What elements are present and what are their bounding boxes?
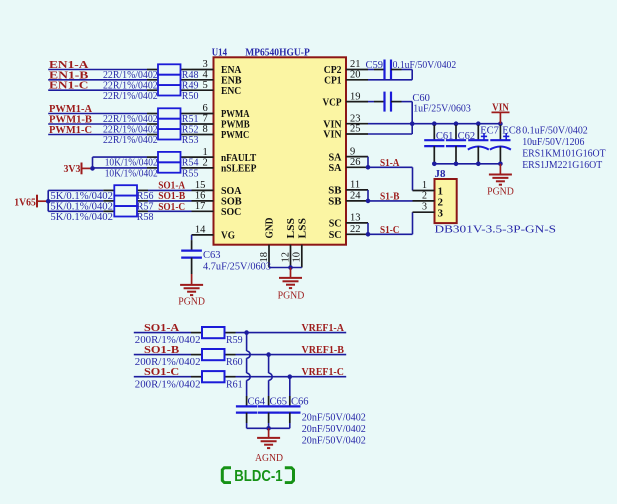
svg-text:2: 2 [203, 158, 208, 169]
wire 1V65 to R58 [48, 210, 103, 212]
svg-text:10uF/50V/1206: 10uF/50V/1206 [522, 137, 584, 148]
U14 pin 12 LSS (bottom stub + number + name) [280, 218, 297, 268]
svg-text:U14: U14 [212, 47, 228, 59]
svg-text:R58: R58 [137, 212, 154, 223]
svg-text:13: 13 [350, 213, 361, 224]
net label SO1-C (lower section) [144, 366, 179, 378]
junction dot bottom rail C62 [454, 162, 459, 167]
cap bank part number ERS1KM101G16OT [522, 148, 606, 159]
junction dot VREF1-A branch [244, 330, 249, 335]
svg-text:VREF1-A: VREF1-A [302, 322, 344, 334]
svg-text:19: 19 [350, 91, 361, 102]
U14 pin 6 PWMA (left stub + number + name) [192, 103, 250, 120]
svg-text:C59: C59 [366, 60, 384, 71]
wire joining GND/LSS/LSS bottom pins [269, 267, 302, 269]
wire SO1-A to R59 [134, 332, 191, 334]
resistor R48 22R/1%/0402 [103, 64, 198, 81]
resistor R50 22R/1%/0402 [103, 85, 198, 102]
svg-text:PGND: PGND [487, 186, 514, 197]
ground PGND under cap bank [487, 164, 514, 198]
svg-text:26: 26 [350, 157, 361, 168]
power port 1V65 [14, 195, 48, 209]
ground PGND under C63 [178, 274, 205, 308]
svg-text:PGND: PGND [278, 290, 305, 301]
svg-text:nSLEEP: nSLEEP [221, 163, 257, 175]
svg-text:SC: SC [329, 218, 342, 230]
svg-text:VREF1-C: VREF1-C [302, 366, 344, 378]
svg-text:MP6540HGU-P: MP6540HGU-P [245, 47, 310, 59]
svg-text:SB: SB [328, 196, 342, 208]
U14 pin 26 SA (right stub + number + name) [329, 157, 369, 174]
svg-text:17: 17 [195, 201, 206, 212]
U14 pin 15 SOA (left stub + number + name) [192, 180, 242, 197]
net label S1-C [380, 224, 399, 236]
svg-text:9: 9 [350, 146, 355, 157]
junction dot at 3V3 connection [90, 166, 95, 171]
svg-text:ERS1JM221G16OT: ERS1JM221G16OT [522, 160, 603, 171]
wire C64 branch vertical with hops [247, 333, 251, 396]
svg-text:R59: R59 [226, 335, 243, 346]
polarized capacitor EC7 [468, 125, 499, 162]
junction dot SB [366, 199, 371, 204]
svg-text:2: 2 [422, 190, 427, 201]
wire cap bank bottom rail [434, 163, 500, 165]
wire VG pin 14 corner down to C63 [191, 235, 193, 240]
wire pin21 to C59 [368, 69, 374, 71]
svg-text:1V65: 1V65 [14, 197, 36, 209]
svg-text:GND: GND [264, 217, 276, 238]
U14 pin 9 SA (right stub + number + name) [329, 146, 369, 163]
resistor R53 22R/1%/0402 [103, 129, 198, 146]
wire EN1-B to R49 [48, 79, 147, 81]
svg-text:SC: SC [329, 229, 342, 241]
junction dot SA [366, 165, 371, 170]
svg-text:3: 3 [438, 207, 444, 219]
wire 1V65 vertical bus [47, 190, 49, 211]
junction dot VIN rail at EC8/VIN [498, 121, 503, 126]
resistor R60 200R/1%/0402 [135, 349, 243, 368]
polarized capacitor EC8 [490, 125, 521, 162]
resistor R58 5K/0.1%/0402 [50, 206, 153, 223]
svg-text:1uF/25V/0603: 1uF/25V/0603 [413, 104, 471, 115]
svg-text:ERS1KM101G16OT: ERS1KM101G16OT [522, 148, 606, 159]
U14 pin 8 PWMC (left stub + number + name) [192, 124, 250, 141]
U14 pin 3 ENA (left stub + number + name) [192, 59, 242, 76]
U14 pin 23 VIN (right stub + number + name) [323, 113, 368, 130]
svg-text:CP1: CP1 [324, 75, 341, 87]
wire R61 to VREF1-C [236, 376, 347, 378]
connector J8 body DB301V-3.5-3P-GN-S [435, 179, 457, 223]
capacitor C62 [446, 125, 475, 162]
svg-text:DB301V-3.5-3P-GN-S: DB301V-3.5-3P-GN-S [435, 224, 557, 235]
svg-text:LSS: LSS [285, 218, 297, 239]
svg-text:J8: J8 [435, 168, 447, 180]
junction dot SC [366, 232, 371, 237]
wire 3V3 to R55 [93, 167, 148, 169]
J8 pin 1 [413, 180, 444, 198]
wire R59 to VREF1-A [236, 332, 347, 334]
U14 pin 13 SC (right stub + number + name) [329, 213, 368, 230]
C64-C66 value text 20nF/50V/0402 line1 [302, 412, 366, 423]
svg-text:EC8: EC8 [502, 125, 521, 136]
svg-text:R60: R60 [226, 357, 243, 368]
svg-text:22: 22 [350, 224, 361, 235]
capacitor C65 20nF/50V/0402 [258, 396, 287, 423]
svg-text:C63: C63 [203, 250, 221, 261]
svg-text:VIN: VIN [323, 129, 341, 141]
junction dot VIN rail at C60 branch [410, 121, 415, 126]
svg-text:R61: R61 [226, 379, 243, 390]
power port VIN [492, 103, 510, 124]
junction dot at 1V65 connection [46, 199, 51, 204]
net label VREF1-C [302, 366, 344, 378]
net label PWM1-A [49, 104, 92, 115]
op-amp U14 MP6540HGU-P driver IC body [214, 57, 347, 244]
wire C60 down to VIN rail [402, 102, 413, 124]
resistor R55 10K/1%/0402 [105, 162, 199, 179]
svg-text:AGND: AGND [255, 453, 283, 464]
svg-text:24: 24 [350, 191, 361, 202]
svg-text:EC7: EC7 [480, 125, 499, 136]
wire 3V3 to R54 [93, 156, 148, 158]
resistor R61 200R/1%/0402 [135, 371, 243, 390]
wire pin13 SC down to pin22 [367, 223, 369, 234]
svg-text:LSS: LSS [296, 218, 308, 239]
svg-text:0.1uF/50V/0402: 0.1uF/50V/0402 [522, 126, 588, 137]
svg-text:SOC: SOC [221, 206, 241, 218]
capacitor C64 20nF/50V/0402 [236, 396, 266, 423]
wire S1-C to J8 pin3 [368, 212, 413, 234]
svg-text:25: 25 [350, 124, 361, 135]
junction dot VIN rail at C61 [432, 121, 437, 126]
svg-text:15: 15 [195, 180, 206, 191]
U14 pin 1 nFAULT (left stub + number + name) [192, 147, 257, 164]
svg-text:22R/1%/0402: 22R/1%/0402 [103, 135, 158, 146]
U14 pin 21 CP2 (right stub + number + name) [324, 59, 368, 76]
svg-text:200R/1%/0402: 200R/1%/0402 [135, 379, 201, 390]
net label EN1-A [49, 60, 89, 71]
svg-text:VREF1-B: VREF1-B [302, 344, 345, 356]
J8 pin 3 [413, 202, 444, 220]
wire EN1-A to R48 [48, 69, 147, 71]
wire VIN rail from pin23 [368, 123, 500, 125]
wire R56 to SOA pin 15 [148, 189, 192, 191]
net label PWM1-B [49, 115, 92, 126]
wire 1V65 to R56 [48, 189, 103, 191]
resistor R52 22R/1%/0402 [103, 119, 198, 136]
resistor R51 22R/1%/0402 [103, 108, 198, 125]
resistor R57 5K/0.1%/0402 [50, 196, 153, 213]
svg-text:5K/0.1%/0402: 5K/0.1%/0402 [50, 212, 113, 223]
U14 pin 4 ENB (left stub + number + name) [192, 70, 243, 87]
svg-text:SA: SA [329, 162, 342, 174]
wire C65 branch vertical with hop [269, 355, 273, 396]
J8 reference designator label [435, 168, 447, 180]
junction dot AGND rail [266, 426, 271, 431]
U14 pin 11 SB (right stub + number + name) [328, 180, 368, 197]
C64-C66 value text 20nF/50V/0402 line3 [302, 436, 366, 447]
wire 3V3 vertical to R54 row [92, 157, 94, 168]
resistor R56 5K/0.1%/0402 [50, 185, 153, 202]
U14 pin 22 SC (right stub + number + name) [329, 224, 368, 241]
svg-text:ENC: ENC [221, 85, 241, 97]
svg-text:PWMC: PWMC [221, 129, 249, 141]
J8 part number label [435, 224, 557, 235]
svg-text:11: 11 [350, 180, 360, 191]
wire pin11 SB down to pin24 [367, 190, 369, 201]
wire SO1-C to R61 [134, 376, 191, 378]
svg-text:12: 12 [280, 252, 291, 263]
wire PWM1-B to R52 [48, 123, 147, 125]
power port 3V3 [64, 163, 93, 176]
U14 pin 10 LSS (bottom stub + number + name) [292, 218, 309, 268]
net label VREF1-A [302, 322, 344, 334]
junction dot VIN rail at C62 [454, 121, 459, 126]
svg-text:7: 7 [203, 114, 208, 125]
svg-text:R50: R50 [182, 91, 199, 102]
net label PWM1-C [49, 125, 92, 136]
wire C59 to pin20 loop [368, 70, 412, 80]
U14 pin 2 nSLEEP (left stub + number + name) [192, 158, 257, 175]
svg-text:3: 3 [422, 202, 427, 213]
net label SO1-B (lower section) [144, 344, 180, 356]
net label SO1-B (to pin 16) [158, 191, 185, 202]
svg-text:16: 16 [195, 191, 206, 202]
svg-text:1: 1 [203, 147, 208, 158]
sheet title BLDC-1 with lenticular brackets [221, 466, 295, 485]
junction dot bottom rail EC7 [476, 162, 481, 167]
svg-text:BLDC-1: BLDC-1 [234, 468, 283, 485]
wire 1V65 to R57 [48, 200, 103, 202]
ground PGND under LSS pins [278, 268, 305, 302]
ground AGND [255, 428, 283, 464]
svg-text:20nF/50V/0402: 20nF/50V/0402 [302, 424, 366, 435]
wire R58 to SOC pin 17 [148, 210, 192, 212]
wire R60 to VREF1-B [236, 354, 347, 356]
cap bank value text 10uF/50V/1206 [522, 137, 584, 148]
svg-text:5: 5 [203, 80, 208, 91]
svg-text:R53: R53 [182, 135, 199, 146]
net label S1-A [380, 157, 399, 169]
junction dot bottom rail C61 [432, 162, 437, 167]
svg-text:VCP: VCP [323, 96, 342, 108]
svg-text:C60: C60 [412, 93, 430, 104]
svg-text:14: 14 [195, 225, 206, 236]
svg-text:1: 1 [422, 180, 427, 191]
U14 pin 14 VG (left stub + number + name) [192, 225, 236, 242]
wire pin9 SA down to pin26 [367, 157, 369, 168]
U14 reference designator label [212, 47, 228, 59]
U14 pin 24 SB (right stub + number + name) [328, 191, 368, 208]
resistor R59 200R/1%/0402 [135, 327, 243, 346]
capacitor C59 0.1uF/50V/0402 [366, 60, 457, 80]
net label SO1-A (to pin 15) [158, 181, 186, 192]
svg-text:4.7uF/25V/0603: 4.7uF/25V/0603 [203, 262, 271, 273]
U14 pin 7 PWMB (left stub + number + name) [192, 114, 251, 131]
resistor R49 22R/1%/0402 [103, 75, 198, 92]
capacitor C61 [424, 125, 453, 162]
junction dot VIN rail at EC7 [476, 121, 481, 126]
wire PWM1-C to R53 [48, 134, 147, 136]
U14 pin 17 SOC (left stub + number + name) [192, 201, 242, 218]
cap bank value text 0.1uF/50V/0402 [522, 126, 588, 137]
U14 pin 5 ENC (left stub + number + name) [192, 80, 242, 97]
junction dot bottom pins [288, 265, 293, 270]
U14 pin 19 VCP (right stub + number + name) [323, 91, 369, 108]
svg-text:VG: VG [221, 230, 235, 242]
svg-text:22R/1%/0402: 22R/1%/0402 [103, 91, 158, 102]
net label EN1-B [49, 70, 88, 81]
svg-text:10: 10 [292, 252, 303, 263]
net label S1-B [380, 191, 400, 203]
junction dot VREF1-B branch [266, 352, 271, 357]
junction dot bottom rail EC8 [498, 162, 503, 167]
svg-text:R55: R55 [182, 169, 199, 180]
wire R57 to SOB pin 16 [148, 200, 192, 202]
wire pin19 to C60 [368, 101, 374, 103]
svg-text:C66: C66 [291, 396, 309, 407]
svg-text:4: 4 [203, 70, 209, 81]
wire EN1-C to R50 [48, 89, 147, 91]
wire C64-C66 bottom rail [247, 423, 290, 428]
wire pin25 up to VIN rail [368, 124, 412, 134]
C64-C66 value text 20nF/50V/0402 line2 [302, 424, 366, 435]
wire C66 branch vertical [289, 377, 291, 396]
wire SO1-B to R60 [134, 354, 191, 356]
wire PWM1-A to R51 [48, 113, 147, 115]
U14 pin 25 VIN (right stub + number + name) [323, 124, 368, 141]
J8 pin 2 [413, 190, 444, 208]
svg-text:20nF/50V/0402: 20nF/50V/0402 [302, 436, 366, 447]
U14 pin 18 GND (bottom stub + number + name) [259, 217, 276, 267]
net label SO1-C (to pin 17) [158, 202, 185, 213]
svg-text:3V3: 3V3 [64, 163, 81, 175]
svg-text:20: 20 [350, 70, 361, 81]
net label VREF1-B [302, 344, 345, 356]
cap bank part number ERS1JM221G16OT [522, 160, 603, 171]
svg-text:6: 6 [203, 103, 208, 114]
capacitor C66 20nF/50V/0402 [279, 396, 308, 423]
U14 part number label MP6540HGU-P [245, 47, 310, 59]
U14 pin 20 CP1 (right stub + number + name) [324, 70, 368, 87]
capacitor C63 4.7uF/25V/0603 [181, 240, 271, 274]
svg-text:10K/1%/0402: 10K/1%/0402 [105, 169, 158, 180]
svg-text:8: 8 [203, 124, 208, 135]
net label SO1-A (lower section) [144, 322, 179, 334]
svg-text:PGND: PGND [178, 297, 205, 308]
svg-text:20nF/50V/0402: 20nF/50V/0402 [302, 412, 366, 423]
wire S1-A to J8 pin1 [368, 167, 413, 190]
wire S1-B to J8 pin2 [368, 200, 413, 202]
junction dot VREF1-C branch [288, 374, 293, 379]
U14 pin 16 SOB (left stub + number + name) [192, 191, 243, 208]
resistor R54 10K/1%/0402 [105, 152, 199, 169]
net label EN1-C [49, 81, 88, 92]
capacitor C60 1uF/25V/0603 [374, 92, 471, 115]
